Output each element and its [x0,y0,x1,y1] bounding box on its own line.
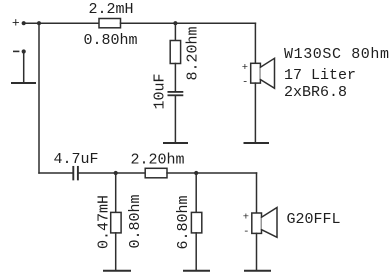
wire 8.2ohm branch upper [174,23,176,40]
speaker LS1 W130SC [251,63,261,83]
plus terminal dot [22,21,26,25]
label 2.2mH [89,1,134,18]
inductor L2 box 0.47mH / 0.8ohm [111,212,121,233]
svg-text:-: - [243,226,249,238]
label 4.7uF [54,151,99,168]
svg-text:2xBR6.8: 2xBR6.8 [284,84,347,101]
svg-text:0.80hm: 0.80hm [84,32,138,49]
svg-text:17 Liter: 17 Liter [284,67,356,84]
svg-text:0.47mH: 0.47mH [96,195,113,249]
label 2xBR6.8 [284,84,347,101]
speaker LS2 G20FFL [252,213,262,233]
svg-text:8.20hm: 8.20hm [185,26,202,80]
label 10uF [152,73,169,109]
ground C1 branch [164,142,187,144]
minus terminal dot [22,49,26,53]
wire C2 to node C [79,172,146,174]
wire LS1 to ground [254,83,256,142]
ground L2 branch [104,270,130,272]
svg-text:+: + [12,15,20,30]
wire C1 to ground [174,96,176,142]
wire minus down [23,52,25,83]
resistor R3 6.8ohm [191,212,201,233]
minus terminal label [14,50,19,52]
wire lower rail left [39,172,73,174]
capacitor C2 4.7uF [72,167,74,180]
node A junction dot [37,21,41,25]
svg-text:6.80hm: 6.80hm [175,195,192,249]
label G20FFL [287,211,341,228]
wire R2 to node D [167,172,257,174]
svg-text:-: - [242,77,248,89]
wire inductor L2 branch upper [115,173,117,212]
wire resistor R3 branch upper [195,173,197,212]
wire top right corner to speaker LS1 [254,23,256,63]
svg-text:2.2mH: 2.2mH [89,1,134,18]
svg-text:0.80hm: 0.80hm [127,194,144,248]
ground R3 branch [184,270,209,272]
label 0.47mH [96,195,113,249]
plus terminal label [12,15,20,30]
label 8.20hm [185,26,202,80]
label 0.80hm vertical [127,194,144,248]
resistor R2 2.2ohm [145,168,167,178]
inductor L1 box 2.2mH / 0.8ohm [99,19,121,28]
ground LS2 [245,270,270,272]
wire R1 to C1 [174,64,176,92]
node C junction dot [114,171,118,175]
wire feed column down to lower section [38,23,40,173]
wire top from L1 to node B [121,22,256,24]
label 0.80hm [84,32,138,49]
wire R3 to ground [195,233,197,270]
svg-text:10uF: 10uF [152,73,169,109]
label 2.20hm [131,151,185,168]
wire top from plus to inductor L1 [24,22,99,24]
node B junction dot (8.2ohm branch tap) [173,21,177,25]
svg-text:+: + [243,212,249,224]
node D junction dot [194,171,198,175]
svg-text:W130SC 80hm: W130SC 80hm [284,46,389,63]
label 6.80hm [175,195,192,249]
resistor R1 8.2ohm [170,41,180,64]
svg-text:+: + [242,62,248,74]
capacitor C1 10uF [168,91,182,93]
svg-text:G20FFL: G20FFL [287,211,341,228]
svg-text:2.20hm: 2.20hm [131,151,185,168]
wire LS2 to ground [256,233,258,269]
label 17 Liter [284,67,356,84]
svg-text:4.7uF: 4.7uF [54,151,99,168]
ground minus terminal [12,82,35,84]
label W130SC 80hm [284,46,389,63]
wire lower right corner to speaker LS2 [256,173,258,213]
ground LS1 [245,142,269,144]
wire L2 to ground [115,233,117,270]
